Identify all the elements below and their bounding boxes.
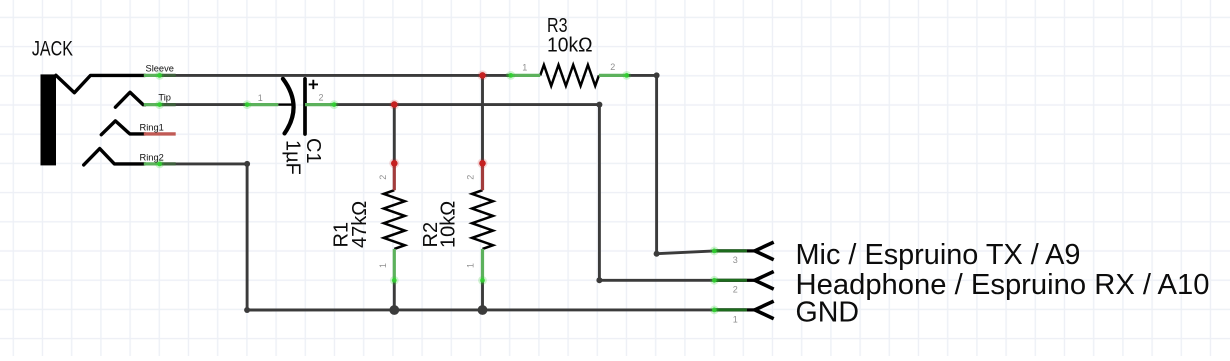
wire: ground rail to GND pin 1 [247,308,714,311]
svg-text:2: 2 [318,93,323,103]
wire: R1 pin 1 to ground rail [393,280,396,310]
wire bendpoint: headphone corner [596,277,602,283]
svg-text:JACK: JACK [32,37,73,60]
green terminal dot: Ring2 [155,160,164,169]
green terminal dot: R2.1 [478,276,487,285]
jack J1 plug body bar [41,74,57,165]
wire: Ring2 pin to corner [160,162,248,165]
junction: R1 to ground rail [389,305,399,315]
red terminal dot: tip/R1 node [389,100,399,110]
wire: vertical down to mic row [655,75,658,253]
wire bendpoint: mic corner [654,251,660,257]
wire: vertical down to headphone row [598,105,601,281]
pin lead connector 3 (green over black) [714,249,747,252]
svg-text:GND: GND [796,297,860,329]
svg-text:1: 1 [733,314,738,324]
svg-text:Sleeve: Sleeve [146,63,174,73]
green terminal dot: R3.1 [506,71,515,80]
svg-text:1: 1 [466,263,476,268]
pin lead Tip (connected, green) [144,103,176,106]
wire: to Mic pin 3 [657,251,715,254]
pin lead R2.1 (green) [481,249,484,281]
svg-text:2: 2 [466,175,476,180]
wire bendpoint: ground rail corner [244,307,250,313]
pin lead Ring1 (unconnected, red) [144,132,176,135]
pin lead Sleeve (connected, green) [144,74,176,77]
wire: junction to R3 pin 1 [483,74,511,77]
capacitor C1 straight plate [303,79,307,134]
svg-text:Tip: Tip [158,93,171,103]
wire: vertical down to ground rail [246,164,249,310]
pin lead R2.2 (red) [481,163,484,190]
pin lead C1.2 (green) [305,103,334,106]
wire bendpoint: ring2 wire corner [244,161,250,167]
wire: junction down to R2 pin 2 [481,75,484,163]
wire: R2 pin 1 to ground rail [481,280,484,310]
red terminal dot: sleeve/R2/R3 node [478,70,488,80]
svg-text:2: 2 [610,62,615,72]
wire: R1 junction to corner [394,103,599,106]
wire bendpoint: tip wire corner [596,102,602,108]
resistor R3 zigzag body [540,65,599,86]
resistor R1 zigzag body [384,190,405,249]
wire: to Headphone pin 2 [599,279,714,282]
wire: R3 pin 2 to corner [627,74,657,77]
jack contact Ring2 [84,149,145,165]
svg-text:10kΩ: 10kΩ [437,201,459,248]
wire: C1 pin 2 to R1 junction [334,103,394,106]
pin lead R3.1 (green) [506,74,540,77]
pin lead Ring2 (connected, green) [144,162,176,165]
green terminal dot: Sleeve [155,71,164,80]
junction: R2 to ground rail [478,305,488,315]
svg-text:Ring1: Ring1 [140,123,164,133]
svg-text:1: 1 [378,263,388,268]
wire: junction down to R1 pin 2 [393,105,396,164]
green terminal dot: pin 2 [710,276,719,285]
wire: Tip pin to C1 pin 1 [160,103,248,106]
svg-text:1: 1 [258,93,263,103]
capacitor C1 pin 1 stub [278,103,291,105]
capacitor C1 curved plate [283,79,294,134]
pin lead connector 1 (green over black) [714,308,747,311]
wire: Sleeve net from jack to R2/R3 junction [160,74,483,77]
resistor R2 zigzag body [472,190,493,249]
svg-text:1µF: 1µF [281,140,303,175]
connector pin 3 Mic chevron [747,242,774,260]
connector pin 1 GND chevron [747,301,774,319]
green terminal dot: C1.1 [243,100,252,109]
svg-text:2: 2 [378,175,388,180]
green terminal dot: C1.2 [330,100,339,109]
pin lead R1.2 (red) [393,163,396,190]
jack contact Tip [115,92,145,107]
red terminal dot: R1 pin 2 [389,158,399,168]
jack contact Ring1 [101,121,145,135]
svg-text:10kΩ: 10kΩ [547,35,593,57]
svg-text:47kΩ: 47kΩ [349,201,371,248]
svg-text:C1: C1 [302,138,324,164]
connector pin 2 Headphone chevron [747,272,774,290]
green terminal dot: R1.1 [390,276,399,285]
green terminal dot: Tip [155,100,164,109]
green terminal dot: pin 3 [710,247,719,256]
svg-text:1: 1 [522,62,527,72]
pin lead C1.1 (green) [247,103,278,106]
jack contact Sleeve [56,75,145,92]
pin lead R1.1 (green) [393,249,396,281]
green terminal dot: R3.2 [622,71,631,80]
svg-text:2: 2 [733,285,738,295]
wire bendpoint: r3 wire corner [654,72,660,78]
svg-text:Ring2: Ring2 [140,153,164,163]
pin lead R3.2 (green) [599,74,627,77]
svg-text:R3: R3 [547,15,568,37]
svg-text:Mic / Espruino TX / A9: Mic / Espruino TX / A9 [796,239,1081,271]
capacitor C1 polarity plus sign [309,80,318,89]
svg-text:3: 3 [733,255,738,265]
green terminal dot: pin 1 [710,306,719,315]
pin lead connector 2 (green over black) [714,279,747,282]
red terminal dot: R2 pin 2 [478,158,488,168]
